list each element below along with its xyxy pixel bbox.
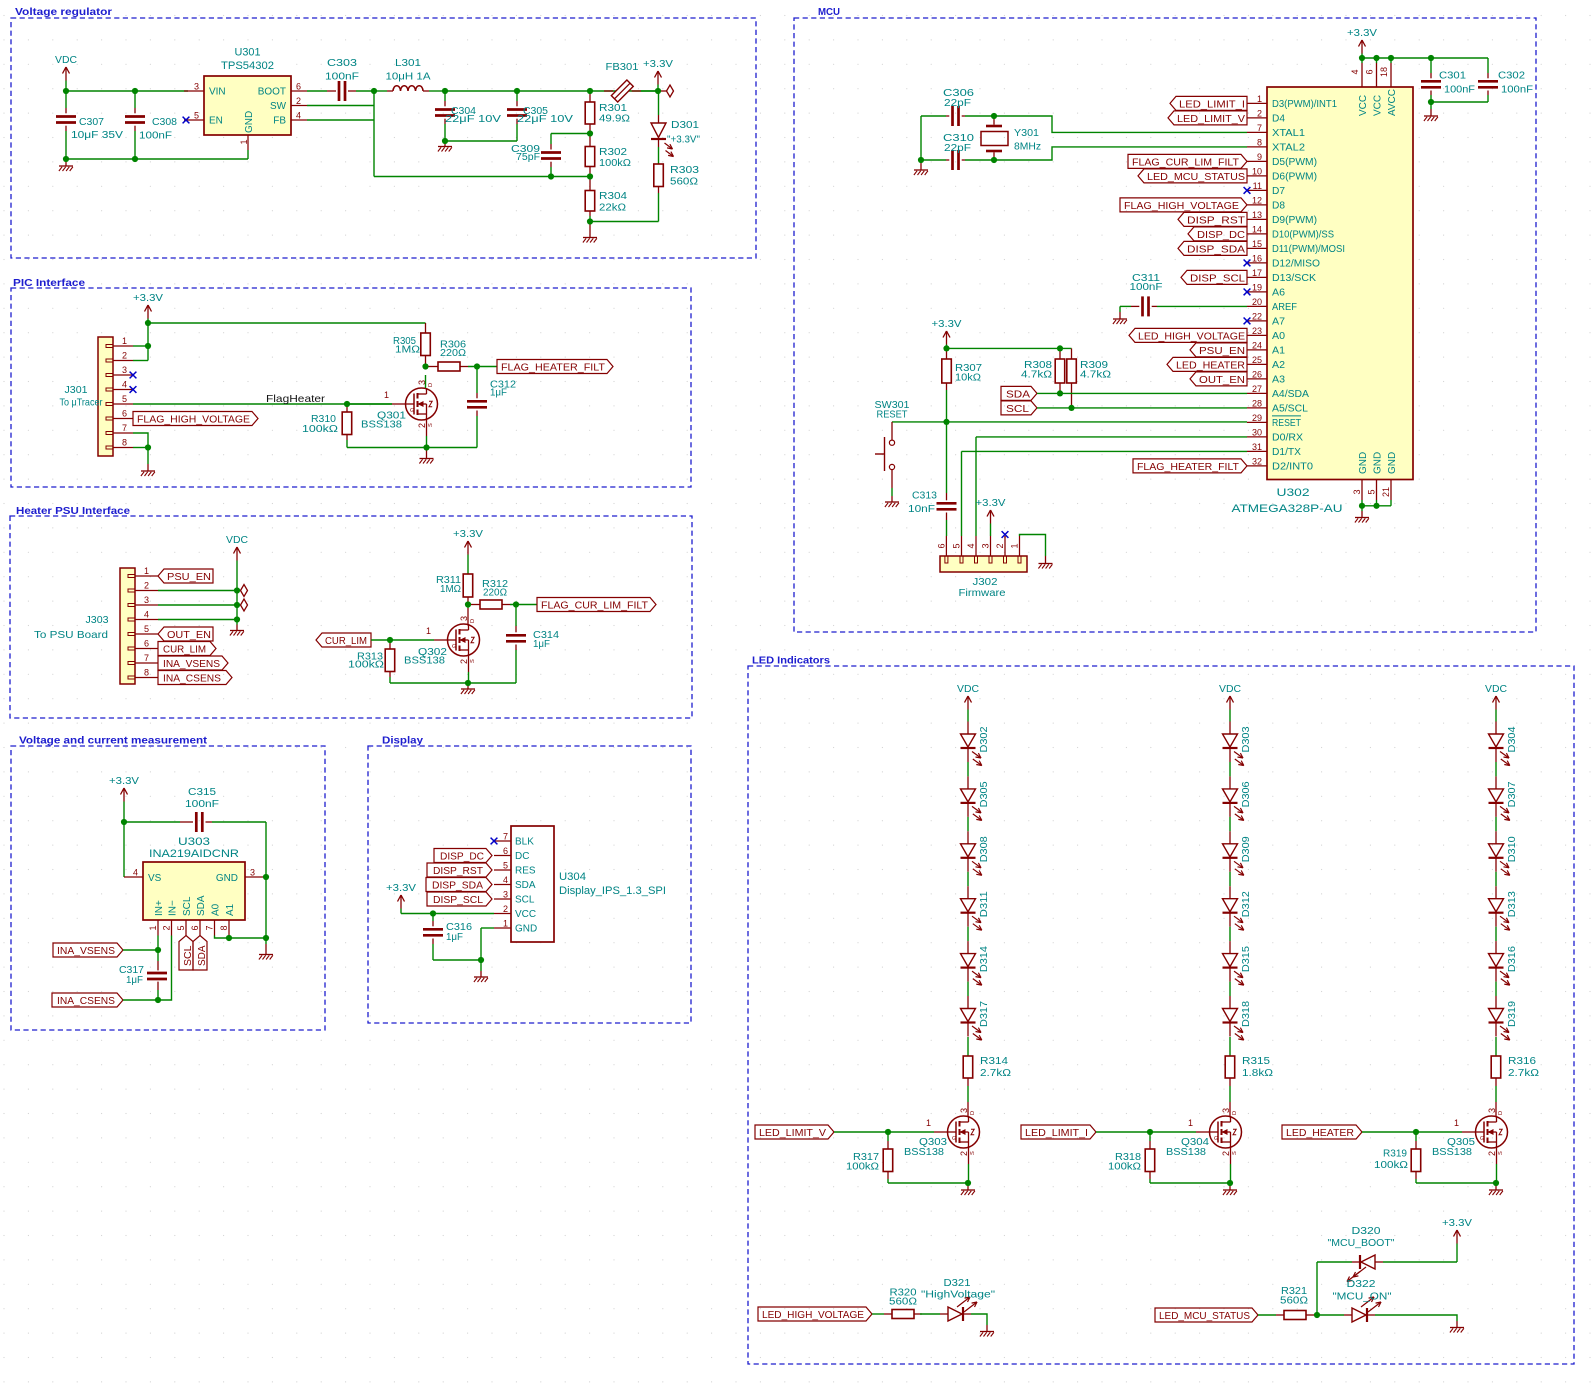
svg-text:1: 1 (144, 566, 149, 576)
svg-text:A2: A2 (1272, 360, 1285, 371)
svg-text:D5(PWM): D5(PWM) (1272, 157, 1317, 168)
svg-text:5: 5 (122, 394, 127, 404)
svg-text:VS: VS (148, 873, 162, 884)
svg-text:22μF 10V: 22μF 10V (445, 114, 501, 125)
svg-text:22: 22 (1252, 311, 1262, 321)
svg-text:9: 9 (1257, 152, 1262, 162)
svg-text:D315: D315 (1241, 946, 1252, 972)
svg-text:A0: A0 (1272, 331, 1285, 342)
svg-text:PSU_EN: PSU_EN (1199, 346, 1245, 357)
svg-text:D314: D314 (979, 946, 990, 972)
svg-text:4: 4 (144, 610, 149, 620)
svg-text:VCC: VCC (1373, 95, 1384, 116)
svg-text:R315: R315 (1242, 1056, 1270, 1067)
svg-text:D304: D304 (1507, 726, 1518, 752)
svg-text:G: G (952, 1136, 956, 1142)
svg-text:28: 28 (1252, 398, 1262, 408)
svg-text:L301: L301 (395, 58, 421, 69)
svg-text:A7: A7 (1272, 316, 1285, 327)
svg-text:DISP_DC: DISP_DC (1197, 230, 1245, 241)
svg-text:A4/SDA: A4/SDA (1272, 389, 1309, 400)
svg-text:TPS54302: TPS54302 (221, 60, 274, 72)
svg-text:D320: D320 (1352, 1226, 1381, 1237)
svg-text:8: 8 (144, 668, 149, 678)
svg-text:D13/SCK: D13/SCK (1272, 273, 1316, 284)
svg-text:8: 8 (122, 438, 127, 448)
svg-text:2: 2 (417, 423, 427, 428)
svg-text:8: 8 (219, 925, 229, 930)
svg-text:220Ω: 220Ω (483, 588, 507, 599)
svg-text:Heater PSU Interface: Heater PSU Interface (16, 506, 130, 517)
svg-text:U303: U303 (178, 836, 210, 848)
svg-text:21: 21 (1381, 487, 1391, 497)
svg-text:D3(PWM)/INT1: D3(PWM)/INT1 (1272, 99, 1337, 110)
svg-text:29: 29 (1252, 413, 1262, 423)
svg-text:3: 3 (1487, 1108, 1497, 1113)
svg-text:J302: J302 (973, 577, 998, 588)
svg-text:3: 3 (144, 595, 149, 605)
svg-text:1: 1 (1257, 94, 1262, 104)
svg-text:100kΩ: 100kΩ (1374, 1160, 1408, 1171)
svg-text:23: 23 (1252, 326, 1262, 336)
svg-text:RESET: RESET (1272, 418, 1301, 429)
svg-text:1μF: 1μF (126, 975, 143, 986)
svg-text:SCL: SCL (1006, 404, 1029, 415)
svg-text:6: 6 (1365, 69, 1375, 74)
svg-text:1μF: 1μF (490, 388, 507, 399)
svg-text:4: 4 (503, 875, 508, 885)
svg-text:3: 3 (959, 1108, 969, 1113)
svg-text:R303: R303 (670, 165, 699, 176)
svg-text:SCL: SCL (515, 895, 535, 906)
svg-text:2: 2 (122, 351, 127, 361)
svg-text:GND: GND (1373, 452, 1384, 474)
svg-text:D306: D306 (1241, 781, 1252, 807)
svg-text:BSS138: BSS138 (904, 1147, 944, 1158)
svg-text:GND: GND (216, 873, 238, 884)
svg-text:DISP_SCL: DISP_SCL (433, 895, 483, 906)
svg-text:J303: J303 (86, 615, 109, 626)
svg-text:SCL: SCL (182, 896, 193, 916)
svg-text:22pF: 22pF (944, 143, 971, 154)
svg-text:31: 31 (1252, 442, 1262, 452)
svg-text:100nF: 100nF (325, 72, 359, 83)
svg-text:6: 6 (936, 543, 946, 548)
svg-text:Display: Display (382, 736, 423, 747)
svg-text:7: 7 (1257, 123, 1262, 133)
svg-text:1: 1 (148, 925, 158, 930)
svg-text:1μF: 1μF (446, 932, 463, 943)
svg-text:D10(PWM)/SS: D10(PWM)/SS (1272, 229, 1334, 240)
svg-text:C302: C302 (1498, 71, 1525, 82)
svg-text:LED_HIGH_VOLTAGE: LED_HIGH_VOLTAGE (1138, 331, 1245, 342)
svg-text:D11(PWM)/MOSI: D11(PWM)/MOSI (1272, 244, 1345, 255)
svg-text:1: 1 (1188, 1118, 1193, 1128)
svg-text:2: 2 (459, 659, 469, 664)
svg-text:C308: C308 (152, 117, 177, 128)
svg-text:BOOT: BOOT (258, 87, 286, 98)
svg-text:S: S (1232, 1151, 1238, 1155)
svg-text:D311: D311 (979, 891, 990, 917)
svg-text:14: 14 (1252, 224, 1262, 234)
svg-text:3: 3 (1221, 1108, 1231, 1113)
svg-text:D310: D310 (1507, 836, 1518, 862)
svg-text:560Ω: 560Ω (1280, 1296, 1308, 1307)
svg-text:G: G (452, 644, 456, 650)
svg-text:D2/INT0: D2/INT0 (1272, 461, 1313, 472)
svg-text:LED_HEATER: LED_HEATER (1176, 360, 1245, 371)
svg-text:FLAG_HIGH_VOLTAGE: FLAG_HIGH_VOLTAGE (1124, 201, 1239, 212)
svg-text:7: 7 (144, 653, 149, 663)
svg-text:100kΩ: 100kΩ (599, 158, 631, 169)
svg-text:SDA: SDA (1006, 389, 1030, 400)
svg-text:CUR_LIM: CUR_LIM (325, 636, 367, 647)
svg-text:DISP_RST: DISP_RST (1187, 215, 1246, 226)
svg-text:GND: GND (244, 111, 255, 133)
svg-text:1MΩ: 1MΩ (440, 584, 461, 595)
svg-text:DC: DC (515, 851, 529, 862)
svg-text:+3.3V: +3.3V (453, 529, 483, 540)
svg-text:1: 1 (1454, 1118, 1459, 1128)
svg-text:LED_LIMIT_I: LED_LIMIT_I (1179, 99, 1245, 110)
svg-text:XTAL2: XTAL2 (1272, 142, 1305, 153)
svg-text:D313: D313 (1507, 891, 1518, 917)
svg-text:LED_MCU_STATUS: LED_MCU_STATUS (1147, 172, 1245, 183)
svg-text:VDC: VDC (1219, 684, 1241, 695)
svg-text:560Ω: 560Ω (670, 177, 698, 188)
svg-text:D307: D307 (1507, 781, 1518, 807)
svg-text:D305: D305 (979, 781, 990, 807)
svg-text:10μH 1A: 10μH 1A (386, 72, 431, 83)
svg-text:5: 5 (194, 111, 199, 121)
svg-text:24: 24 (1252, 340, 1262, 350)
svg-text:10nF: 10nF (908, 504, 935, 515)
svg-text:4: 4 (122, 380, 127, 390)
svg-text:8: 8 (1257, 137, 1262, 147)
svg-text:D312: D312 (1241, 891, 1252, 917)
svg-text:100kΩ: 100kΩ (302, 424, 338, 435)
svg-text:OUT_EN: OUT_EN (1199, 375, 1245, 386)
svg-text:S: S (1498, 1151, 1504, 1155)
svg-text:INA_CSENS: INA_CSENS (163, 674, 221, 685)
svg-text:4.7kΩ: 4.7kΩ (1021, 370, 1052, 381)
svg-text:D1/TX: D1/TX (1272, 447, 1301, 458)
svg-text:BSS138: BSS138 (404, 656, 445, 667)
svg-text:75pF: 75pF (516, 152, 540, 163)
svg-text:D12/MISO: D12/MISO (1272, 258, 1320, 269)
svg-text:A1: A1 (225, 903, 236, 916)
svg-text:J301: J301 (65, 385, 88, 396)
svg-text:XTAL1: XTAL1 (1272, 128, 1305, 139)
svg-text:R301: R301 (599, 103, 627, 114)
svg-text:BLK: BLK (515, 837, 534, 848)
svg-text:R314: R314 (980, 1056, 1008, 1067)
svg-text:17: 17 (1252, 268, 1262, 278)
svg-text:IN+: IN+ (154, 900, 165, 916)
svg-text:D303: D303 (1241, 726, 1252, 752)
svg-text:S: S (470, 659, 476, 663)
svg-text:SW: SW (270, 101, 287, 112)
svg-text:1MΩ: 1MΩ (395, 345, 420, 356)
svg-text:100kΩ: 100kΩ (846, 1162, 879, 1173)
svg-text:+3.3V: +3.3V (133, 293, 163, 304)
svg-text:7: 7 (205, 925, 215, 930)
svg-text:15: 15 (1252, 239, 1262, 249)
svg-text:"HighVoltage": "HighVoltage" (921, 1290, 995, 1301)
svg-text:FLAG_HEATER_FILT: FLAG_HEATER_FILT (501, 363, 606, 374)
svg-text:25: 25 (1252, 355, 1262, 365)
svg-text:FB301: FB301 (606, 62, 639, 73)
svg-text:To PSU Board: To PSU Board (34, 630, 108, 641)
svg-text:2.7kΩ: 2.7kΩ (980, 1068, 1011, 1079)
svg-text:6: 6 (122, 409, 127, 419)
svg-text:VDC: VDC (226, 535, 248, 546)
svg-text:SDA: SDA (196, 895, 207, 916)
svg-text:2: 2 (503, 904, 508, 914)
svg-text:100kΩ: 100kΩ (1108, 1162, 1141, 1173)
svg-text:D7: D7 (1272, 186, 1285, 197)
svg-text:+3.3V: +3.3V (1347, 28, 1377, 39)
svg-text:VDC: VDC (957, 684, 979, 695)
svg-text:VDC: VDC (55, 55, 77, 66)
svg-text:ATMEGA328P-AU: ATMEGA328P-AU (1232, 503, 1343, 515)
svg-text:D322: D322 (1347, 1279, 1376, 1290)
svg-text:RESET: RESET (877, 410, 909, 421)
svg-text:Firmware: Firmware (959, 588, 1006, 599)
svg-text:22kΩ: 22kΩ (599, 203, 626, 214)
svg-text:6: 6 (503, 846, 508, 856)
svg-text:D: D (1498, 1111, 1504, 1115)
svg-text:1: 1 (384, 390, 389, 400)
svg-text:S: S (970, 1151, 976, 1155)
svg-text:6: 6 (144, 639, 149, 649)
svg-text:GND: GND (1387, 452, 1398, 474)
svg-text:GND: GND (515, 924, 537, 935)
svg-text:560Ω: 560Ω (889, 1297, 917, 1308)
svg-text:19: 19 (1252, 282, 1262, 292)
svg-text:D302: D302 (979, 726, 990, 752)
svg-text:30: 30 (1252, 427, 1262, 437)
svg-text:DISP_SCL: DISP_SCL (1190, 273, 1245, 284)
svg-text:7: 7 (122, 423, 127, 433)
svg-text:2: 2 (1257, 108, 1262, 118)
svg-text:49.9Ω: 49.9Ω (599, 114, 630, 125)
svg-text:100nF: 100nF (139, 131, 172, 142)
svg-text:5: 5 (144, 624, 149, 634)
svg-text:U301: U301 (235, 47, 261, 59)
svg-text:PIC Interface: PIC Interface (13, 278, 85, 289)
svg-text:D309: D309 (1241, 836, 1252, 862)
svg-text:220Ω: 220Ω (440, 348, 466, 359)
svg-text:3: 3 (194, 82, 199, 92)
svg-text:VCC: VCC (515, 909, 536, 920)
svg-text:LED_LIMIT_I: LED_LIMIT_I (1025, 1128, 1088, 1139)
svg-text:5: 5 (952, 543, 962, 548)
svg-text:1: 1 (426, 626, 431, 636)
svg-text:10μF 35V: 10μF 35V (71, 130, 123, 141)
svg-text:D318: D318 (1241, 1001, 1252, 1027)
svg-text:2: 2 (959, 1151, 969, 1156)
svg-text:MCU: MCU (818, 7, 840, 18)
svg-text:BSS138: BSS138 (1166, 1147, 1206, 1158)
svg-text:D: D (470, 619, 476, 623)
svg-text:G: G (410, 408, 414, 414)
svg-text:2: 2 (144, 581, 149, 591)
svg-text:4: 4 (966, 543, 976, 548)
svg-text:+3.3V: +3.3V (1442, 1218, 1472, 1229)
svg-text:5: 5 (503, 861, 508, 871)
svg-text:100nF: 100nF (1130, 282, 1163, 293)
svg-text:VIN: VIN (209, 87, 226, 98)
svg-text:D9(PWM): D9(PWM) (1272, 215, 1317, 226)
svg-text:INA_VSENS: INA_VSENS (163, 659, 220, 670)
svg-text:3: 3 (122, 365, 127, 375)
svg-text:OUT_EN: OUT_EN (167, 630, 211, 641)
svg-text:1.8kΩ: 1.8kΩ (1242, 1068, 1273, 1079)
svg-text:4: 4 (1350, 69, 1360, 74)
svg-text:D316: D316 (1507, 946, 1518, 972)
svg-text:R319: R319 (1383, 1149, 1407, 1160)
svg-text:IN−: IN− (168, 900, 179, 916)
svg-text:LED_MCU_STATUS: LED_MCU_STATUS (1159, 1311, 1250, 1322)
svg-text:FLAG_CUR_LIM_FILT: FLAG_CUR_LIM_FILT (541, 601, 649, 612)
svg-text:100kΩ: 100kΩ (348, 660, 384, 671)
svg-text:+3.3V: +3.3V (976, 498, 1006, 509)
svg-text:100nF: 100nF (185, 799, 219, 810)
svg-text:1: 1 (1010, 543, 1020, 548)
svg-text:3: 3 (503, 890, 508, 900)
svg-text:To μTracer: To μTracer (60, 398, 103, 409)
svg-text:5: 5 (1367, 489, 1377, 494)
svg-text:Y301: Y301 (1014, 128, 1039, 139)
svg-text:11: 11 (1253, 181, 1262, 191)
svg-text:2: 2 (296, 96, 301, 106)
svg-text:13: 13 (1252, 210, 1262, 220)
svg-text:7: 7 (503, 832, 508, 842)
svg-text:D4: D4 (1272, 113, 1285, 124)
svg-text:3: 3 (250, 868, 255, 878)
svg-text:A6: A6 (1272, 287, 1285, 298)
svg-text:D: D (970, 1111, 976, 1115)
svg-text:1: 1 (503, 919, 508, 929)
svg-text:INA_CSENS: INA_CSENS (57, 996, 115, 1007)
svg-text:FLAG_CUR_LIM_FILT: FLAG_CUR_LIM_FILT (1132, 157, 1240, 168)
svg-text:R304: R304 (599, 191, 627, 202)
svg-text:DISP_SDA: DISP_SDA (1187, 244, 1245, 255)
svg-text:26: 26 (1252, 369, 1262, 379)
svg-text:1μF: 1μF (533, 639, 550, 650)
svg-text:FB: FB (273, 116, 286, 127)
svg-text:2: 2 (162, 925, 172, 930)
svg-text:S: S (428, 423, 434, 427)
svg-text:10kΩ: 10kΩ (955, 373, 981, 384)
svg-text:+3.3V: +3.3V (643, 59, 673, 70)
svg-text:6: 6 (190, 925, 200, 930)
svg-text:18: 18 (1379, 67, 1389, 77)
svg-text:D321: D321 (944, 1278, 971, 1289)
svg-text:16: 16 (1252, 253, 1262, 263)
svg-text:D319: D319 (1507, 1001, 1518, 1027)
svg-text:RES: RES (515, 866, 536, 877)
svg-text:G: G (1214, 1136, 1218, 1142)
svg-text:U302: U302 (1277, 487, 1310, 499)
svg-text:2.7kΩ: 2.7kΩ (1508, 1068, 1539, 1079)
svg-text:2: 2 (995, 543, 1005, 548)
svg-text:12: 12 (1252, 195, 1262, 205)
svg-text:2: 2 (1221, 1151, 1231, 1156)
svg-text:D308: D308 (979, 836, 990, 862)
svg-text:"+3.3V": "+3.3V" (667, 135, 700, 146)
svg-text:LED Indicators: LED Indicators (752, 656, 830, 667)
svg-text:D301: D301 (671, 120, 699, 131)
svg-text:1: 1 (239, 139, 249, 144)
svg-text:INA_VSENS: INA_VSENS (57, 946, 115, 957)
svg-text:Voltage and current measuremen: Voltage and current measurement (19, 736, 208, 747)
svg-text:G: G (1480, 1136, 1484, 1142)
svg-text:1: 1 (926, 1118, 931, 1128)
svg-text:20: 20 (1252, 297, 1262, 307)
svg-text:+3.3V: +3.3V (932, 319, 962, 330)
svg-text:4: 4 (296, 111, 301, 121)
svg-text:+3.3V: +3.3V (109, 776, 139, 787)
svg-text:LED_HEATER: LED_HEATER (1286, 1128, 1354, 1139)
svg-text:SDA: SDA (197, 945, 208, 966)
svg-text:R302: R302 (599, 147, 627, 158)
svg-text:BSS138: BSS138 (361, 420, 402, 431)
svg-text:GND: GND (1358, 452, 1369, 474)
svg-text:A1: A1 (1272, 345, 1285, 356)
svg-text:PSU_EN: PSU_EN (167, 572, 211, 583)
svg-text:SDA: SDA (515, 880, 536, 891)
svg-text:C313: C313 (912, 491, 937, 502)
svg-text:D: D (1232, 1111, 1238, 1115)
svg-text:3: 3 (1352, 489, 1362, 494)
svg-text:4: 4 (133, 868, 138, 878)
svg-text:R316: R316 (1508, 1056, 1536, 1067)
svg-text:C315: C315 (188, 787, 216, 798)
svg-text:LED_LIMIT_V: LED_LIMIT_V (759, 1128, 826, 1139)
svg-text:EN: EN (209, 116, 223, 127)
svg-text:DISP_RST: DISP_RST (433, 866, 484, 877)
svg-text:LED_HIGH_VOLTAGE: LED_HIGH_VOLTAGE (762, 1310, 864, 1321)
svg-text:SCL: SCL (183, 945, 194, 966)
svg-text:3: 3 (981, 543, 991, 548)
svg-text:AVCC: AVCC (1387, 89, 1398, 116)
svg-text:INA219AIDCNR: INA219AIDCNR (149, 848, 239, 860)
svg-text:1: 1 (122, 336, 127, 346)
svg-text:FLAG_HEATER_FILT: FLAG_HEATER_FILT (1137, 462, 1240, 473)
svg-text:"MCU_ON": "MCU_ON" (1333, 1292, 1392, 1303)
svg-text:A0: A0 (211, 903, 222, 916)
svg-text:C307: C307 (79, 117, 104, 128)
svg-text:4.7kΩ: 4.7kΩ (1080, 370, 1111, 381)
svg-text:"MCU_BOOT": "MCU_BOOT" (1328, 1238, 1395, 1249)
svg-text:27: 27 (1252, 384, 1262, 394)
svg-text:C303: C303 (327, 58, 357, 69)
svg-text:Display_IPS_1.3_SPI: Display_IPS_1.3_SPI (559, 885, 666, 897)
svg-text:C301: C301 (1439, 71, 1466, 82)
svg-text:100nF: 100nF (1444, 85, 1475, 96)
svg-text:FlagHeater: FlagHeater (266, 394, 326, 405)
svg-text:D317: D317 (979, 1001, 990, 1027)
svg-text:FLAG_HIGH_VOLTAGE: FLAG_HIGH_VOLTAGE (137, 415, 250, 426)
svg-text:D6(PWM): D6(PWM) (1272, 171, 1317, 182)
svg-text:10: 10 (1252, 166, 1262, 176)
svg-text:D: D (428, 383, 434, 387)
svg-text:Voltage regulator: Voltage regulator (15, 7, 112, 18)
svg-text:8MHz: 8MHz (1014, 142, 1041, 153)
svg-text:LED_LIMIT_V: LED_LIMIT_V (1177, 114, 1245, 125)
